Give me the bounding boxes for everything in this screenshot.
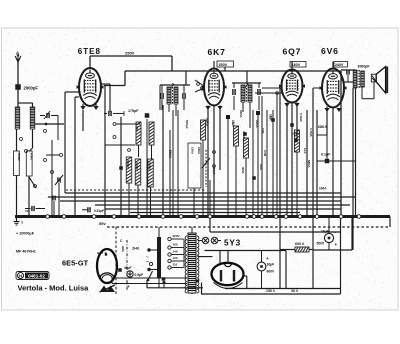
svg-text:6V6: 6V6 (321, 46, 339, 56)
svg-text:~: ~ (146, 260, 149, 266)
svg-text:16μF: 16μF (321, 230, 329, 234)
svg-text:30 Λ: 30 Λ (291, 289, 299, 293)
svg-text:400Λ: 400Λ (241, 167, 245, 174)
svg-text:0461-02: 0461-02 (28, 273, 45, 278)
svg-text:500pF: 500pF (185, 120, 189, 129)
svg-text:2HΛ: 2HΛ (132, 247, 140, 251)
svg-text:0.1μF: 0.1μF (321, 153, 331, 157)
svg-text:1KΛ: 1KΛ (303, 148, 307, 154)
svg-text:50000: 50000 (126, 160, 130, 168)
svg-text:6K7: 6K7 (208, 47, 226, 57)
svg-text:Vertola - Mod. Luisa: Vertola - Mod. Luisa (18, 283, 90, 292)
svg-text:320V: 320V (173, 234, 180, 238)
svg-text:400pF: 400pF (212, 166, 216, 175)
svg-text:180V: 180V (292, 63, 301, 67)
svg-text:0.01pF: 0.01pF (94, 209, 104, 213)
svg-text:5Y3: 5Y3 (224, 239, 241, 248)
svg-text:6Q7: 6Q7 (283, 47, 302, 57)
svg-text:55v: 55v (99, 221, 106, 226)
svg-text:0.5M: 0.5M (263, 150, 267, 157)
svg-text:500V: 500V (317, 242, 326, 246)
svg-text:0.1MΛ: 0.1MΛ (299, 113, 303, 122)
svg-text:730: 730 (25, 209, 30, 213)
svg-text:16μF: 16μF (267, 263, 275, 267)
svg-text:10000: 10000 (135, 162, 139, 170)
svg-text:+: + (266, 256, 269, 261)
svg-text:160: 160 (173, 243, 178, 247)
svg-text:+: + (127, 284, 130, 289)
svg-text:175pF: 175pF (128, 109, 139, 113)
svg-text:2MΛ: 2MΛ (121, 246, 125, 252)
svg-text:0.7MΛ: 0.7MΛ (309, 128, 313, 137)
svg-text:40μF: 40μF (124, 266, 131, 270)
svg-text:3000pF: 3000pF (358, 65, 371, 69)
svg-text:NORM: NORM (17, 153, 20, 161)
svg-text:68KΛ: 68KΛ (318, 125, 328, 129)
svg-text:600 Λ: 600 Λ (295, 242, 305, 246)
svg-text:FONO: FONO (30, 153, 33, 160)
svg-text:MF 467KHz: MF 467KHz (16, 250, 36, 254)
svg-text:250V: 250V (125, 51, 135, 56)
svg-text:104Λ: 104Λ (319, 187, 327, 191)
svg-text:120: 120 (173, 256, 178, 260)
svg-text:150 Λ: 150 Λ (266, 289, 276, 293)
svg-text:15KΛ: 15KΛ (191, 147, 195, 154)
svg-text:68KΛ: 68KΛ (307, 160, 311, 168)
svg-text:110: 110 (173, 263, 178, 267)
svg-text:10000: 10000 (148, 162, 152, 170)
svg-text:250V: 250V (219, 63, 228, 67)
svg-text:600V: 600V (267, 270, 276, 274)
svg-text:6E5-GT: 6E5-GT (62, 259, 89, 268)
svg-text:~: ~ (146, 255, 149, 260)
svg-text:50KΛ: 50KΛ (239, 110, 243, 118)
svg-text:+: + (335, 242, 338, 247)
svg-text:6TE8: 6TE8 (78, 47, 101, 56)
svg-text:180: 180 (135, 126, 139, 131)
svg-text:0.5μF: 0.5μF (135, 273, 144, 277)
svg-text:140: 140 (173, 250, 178, 254)
svg-text:+ 10000μF: + 10000μF (16, 232, 35, 236)
svg-text:240V: 240V (335, 63, 344, 67)
svg-text:H: H (19, 274, 22, 279)
svg-text:23KΛ: 23KΛ (197, 147, 201, 154)
svg-text:2000pF: 2000pF (24, 86, 39, 91)
